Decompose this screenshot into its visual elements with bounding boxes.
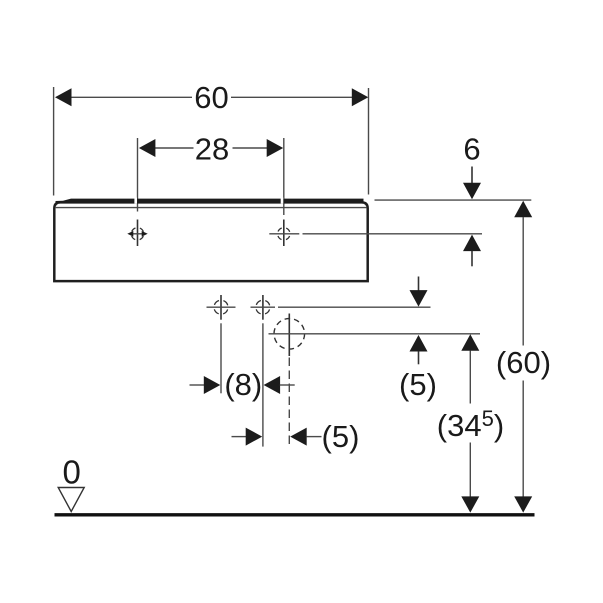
dimension (5) vertical lower arrow stem <box>418 351 420 364</box>
tap hole vertical line <box>288 314 290 357</box>
svg-text:(60): (60) <box>496 345 551 380</box>
small hole 1 dashed circle <box>212 298 230 316</box>
svg-text:28: 28 <box>195 131 229 166</box>
dimension (34⁵) upper arrow <box>461 334 479 351</box>
dimension (34⁵) line upper segment <box>469 351 471 404</box>
washbasin body outline <box>54 202 367 281</box>
left fixing hole dashed circle <box>129 226 145 242</box>
tap hole center line <box>269 333 481 335</box>
small hole 2 dashed circle <box>254 298 272 316</box>
washbasin inner rim line <box>56 207 367 209</box>
left fixing hole double arrow <box>131 233 145 235</box>
washbasin top slab gap right <box>281 198 284 204</box>
dimension (60) lower arrow <box>514 496 532 512</box>
svg-text:6: 6 <box>463 132 480 167</box>
tap hole dashed extension below <box>288 358 290 447</box>
dimension (34⁵) line lower segment <box>469 443 471 498</box>
dimension (8) right arrow <box>264 376 281 394</box>
small hole 2 crosshair horizontal <box>251 306 276 308</box>
dimension 28 left extension line <box>137 138 139 212</box>
dimension (8) right tail <box>280 384 295 386</box>
svg-text:(345): (345) <box>437 406 504 443</box>
extension line below small hole 2 <box>262 323 264 446</box>
dimension 28 line right segment <box>233 147 269 149</box>
dimension 28 right arrow <box>267 139 284 157</box>
dimension (5) vertical lower arrow <box>410 335 428 352</box>
top reference line <box>375 199 532 201</box>
washbasin top slab gap left <box>134 198 137 204</box>
dimension 6 lower arrow stem <box>471 251 473 266</box>
dimension 6 upper arrow <box>463 183 481 200</box>
dimension 60 left extension line <box>53 87 55 196</box>
dimension (5) horizontal left arrow <box>246 428 263 446</box>
dimension (5) vertical upper arrow stem <box>418 277 420 292</box>
dimension 60 line left segment <box>70 96 192 98</box>
dimension (8) left tail <box>190 384 206 386</box>
svg-text:(5): (5) <box>399 367 437 402</box>
svg-text:(5): (5) <box>322 419 360 454</box>
dimension 6 upper arrow stem <box>471 167 473 185</box>
left fixing hole crosshair vertical <box>137 220 139 247</box>
dimension 60 line right segment <box>231 96 353 98</box>
dimension (5) vertical upper arrow <box>410 290 428 307</box>
dimension (60) line upper segment <box>522 217 524 346</box>
small hole 2 crosshair vertical <box>262 295 264 320</box>
dimension 28 left arrow <box>139 139 156 157</box>
floor line <box>55 513 535 516</box>
washbasin top slab (thick bar) <box>56 199 364 203</box>
dimension 60 right arrow <box>352 88 369 106</box>
datum triangle <box>58 488 84 512</box>
svg-text:0: 0 <box>63 454 81 491</box>
dimension (60) upper arrow <box>514 201 532 218</box>
dimension (5) horizontal right tail <box>306 436 321 438</box>
svg-text:60: 60 <box>194 80 228 115</box>
right fixing hole crosshair horizontal <box>269 233 299 235</box>
right fixing hole crosshair vertical <box>283 220 285 247</box>
dimension 60 left arrow <box>55 88 72 106</box>
dimension 6 lower arrow <box>463 235 481 252</box>
right fixing hole dashed circle <box>276 226 292 242</box>
dimension (5) horizontal right arrow <box>290 428 307 446</box>
small hole 1 crosshair horizontal <box>207 306 236 308</box>
leader line from right hole <box>303 233 483 235</box>
dimension (8) left arrow <box>204 376 221 394</box>
dimension (5) horizontal left tail <box>232 436 247 438</box>
extension line below small hole 1 <box>220 323 222 393</box>
tap hole dashed circle <box>274 319 305 350</box>
dimension (34⁵) lower arrow <box>461 496 479 512</box>
small hole 1 crosshair vertical <box>220 295 222 320</box>
svg-text:(8): (8) <box>224 367 262 402</box>
dimension 28 line left segment <box>154 147 194 149</box>
dimension (60) line lower segment <box>522 381 524 498</box>
dimension 28 right extension line <box>283 138 285 215</box>
dimension 60 right extension line <box>368 88 370 195</box>
leader line from small holes <box>278 306 431 308</box>
